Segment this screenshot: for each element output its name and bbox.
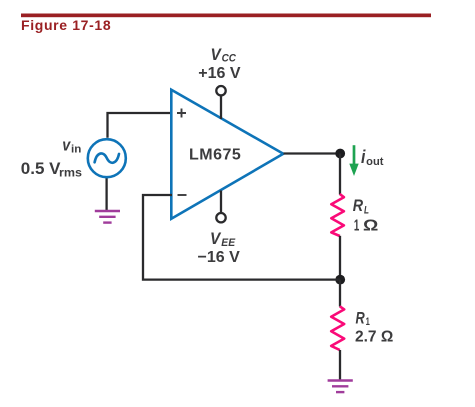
op-amp U1 LM675 xyxy=(171,90,283,219)
source VS sine generator xyxy=(88,139,126,177)
wire + input horizontal xyxy=(108,113,173,138)
VEE terminal xyxy=(220,191,222,213)
plus input marking xyxy=(177,109,186,118)
node A output junction xyxy=(335,149,345,159)
minus input marking xyxy=(178,194,187,196)
resistor R1 xyxy=(331,306,344,350)
feedback wire xyxy=(143,195,340,280)
svg-text:−16 V: −16 V xyxy=(198,249,241,266)
svg-text:rms: rms xyxy=(59,168,82,180)
resistor RL xyxy=(331,194,344,236)
svg-text:CC: CC xyxy=(222,52,237,64)
wire node to RL xyxy=(339,154,341,195)
svg-text:1: 1 xyxy=(354,217,359,234)
svg-text:R: R xyxy=(356,308,366,327)
svg-text:2.7 Ω: 2.7 Ω xyxy=(355,329,393,346)
wire R1 to ground xyxy=(339,350,341,380)
wire output xyxy=(284,152,341,154)
svg-text:1: 1 xyxy=(366,316,370,328)
ground (R1) xyxy=(328,381,353,393)
svg-text:0.5 V: 0.5 V xyxy=(21,159,61,178)
svg-text:Figure 17-18: Figure 17-18 xyxy=(21,17,111,33)
svg-text:L: L xyxy=(364,205,369,217)
svg-text:EE: EE xyxy=(221,237,235,249)
wire node B to R1 xyxy=(339,280,341,307)
VCC terminal xyxy=(220,96,222,119)
svg-text:+16 V: +16 V xyxy=(198,65,241,82)
node B feedback junction xyxy=(335,275,345,285)
ground (source) xyxy=(95,211,120,223)
svg-text:R: R xyxy=(353,196,364,215)
svg-text:V: V xyxy=(211,45,223,64)
svg-text:in: in xyxy=(71,144,82,156)
wire RL to node B xyxy=(339,236,341,280)
svg-text:Ω: Ω xyxy=(363,217,379,234)
current arrow i_out xyxy=(353,145,356,165)
svg-text:V: V xyxy=(210,229,222,248)
svg-text:out: out xyxy=(366,156,384,168)
figure header rule xyxy=(21,14,431,18)
wire source to ground xyxy=(105,178,107,211)
svg-text:LM675: LM675 xyxy=(189,147,241,164)
